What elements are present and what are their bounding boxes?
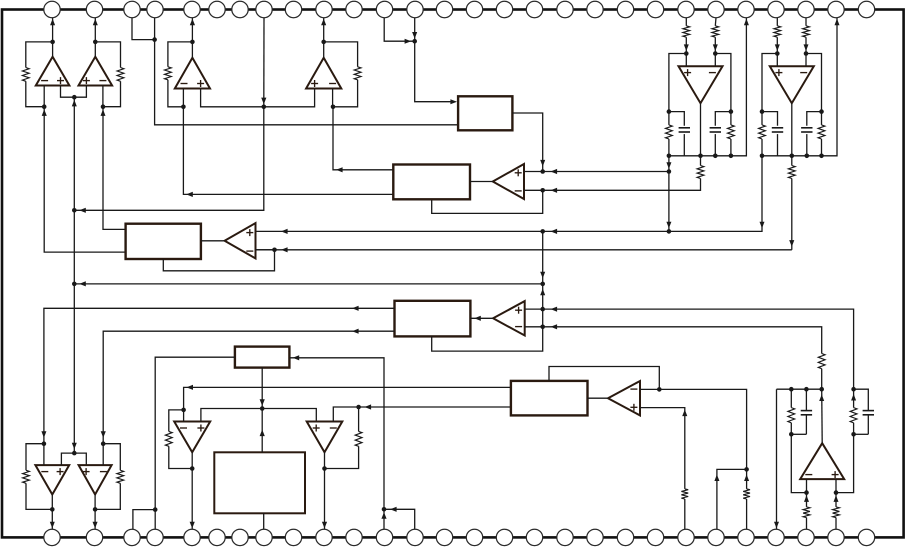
node RC1 bottom — [789, 432, 794, 437]
resistor R15 — [788, 408, 795, 423]
wire U6 + input — [776, 54, 778, 67]
op-amp U4 — [306, 58, 341, 89]
block B4 — [395, 301, 471, 337]
top pin row (pins 1-28) — [44, 1, 875, 17]
wire C5b to rail — [714, 134, 716, 156]
resistor R9 — [165, 431, 172, 446]
arrow into pin 5 — [190, 19, 195, 26]
wire U1 inverting input — [43, 86, 45, 107]
arrow line E into buffer A2 — [281, 247, 288, 252]
arrow into bottom pin 38 — [322, 522, 327, 529]
wire A3 - line to x822 — [543, 327, 822, 354]
arrow on B2 lower input — [186, 192, 193, 197]
node VC at line y210 — [72, 208, 77, 213]
node U5 left net top — [667, 109, 672, 114]
wire line E — [256, 249, 792, 251]
arrow U11 output up — [819, 394, 824, 401]
wire U2 inv node down to block B3 — [103, 107, 126, 230]
wire A4 - line to pins 23/24 — [659, 389, 746, 469]
wire pin 12 down — [384, 18, 415, 42]
op-amp U1 — [36, 57, 70, 86]
wire R17 to bottom pin 27 — [835, 518, 837, 530]
resistor R6b — [803, 26, 810, 37]
wire to bottom pin 4 — [154, 510, 156, 530]
wire A4 - input — [640, 388, 659, 390]
wire U5 + input — [685, 54, 687, 67]
wire B4 upper output to U7 — [44, 308, 395, 443]
wire B6 bottom to pin 36 — [263, 513, 265, 529]
arrow into pin 10 — [321, 19, 326, 26]
capacitor C5a — [679, 128, 690, 132]
wire U1 output to R1 — [26, 42, 53, 68]
wire U5 bottom rail — [669, 18, 747, 156]
wire U6 + node to left network — [762, 54, 777, 112]
wire U11 + input — [835, 479, 837, 493]
wire pin 25 to R6a — [776, 18, 778, 26]
wire R16 to bottom pin 26 — [806, 518, 808, 530]
op-amp U5 — [679, 66, 723, 103]
wire node to bottom pin 41 — [384, 509, 415, 529]
wire U8 - input — [102, 444, 104, 465]
wire to bottom pin 3 — [133, 510, 155, 530]
wire R5d to rail — [730, 139, 732, 156]
wire R5b down — [714, 37, 716, 53]
arrow into B5 right side — [293, 355, 300, 360]
arrow into U1 inverting node — [42, 109, 47, 116]
capacitor C8 — [863, 411, 874, 415]
resistor R17 — [833, 507, 840, 518]
arrow into U8 - node — [101, 431, 106, 438]
wire R6c leads — [761, 112, 763, 125]
resistor R5d — [728, 125, 735, 139]
wire R6d to rail — [821, 139, 823, 156]
node U5 right net top — [729, 109, 734, 114]
wire R9 to U9 output — [169, 446, 192, 468]
arrow on B4 lower output — [352, 329, 359, 334]
node line A at x669 — [667, 169, 672, 174]
wire U11 top rail — [777, 388, 822, 390]
wire U1 noninv input — [61, 86, 75, 98]
wire C7 bottom riser — [805, 415, 807, 435]
wire U2 output to R2 — [95, 42, 120, 68]
resistor R1 — [22, 68, 29, 82]
resistor R5e — [697, 166, 704, 179]
wire A3 - feedback to B4 — [432, 327, 543, 351]
wire A4 + line — [640, 408, 685, 489]
arrow on line B — [551, 188, 558, 193]
wire A3 output to B4 — [470, 317, 493, 319]
node bottom pins 3/4 junction — [153, 507, 158, 512]
arrow center col up — [540, 289, 545, 296]
wire R5a down — [685, 37, 687, 53]
arrow into pin13 net — [405, 39, 412, 44]
wire U6 bottom rail — [762, 18, 837, 156]
block B2 — [393, 165, 470, 200]
arrow into U11 - node — [804, 495, 809, 502]
node U6 rail output — [790, 154, 795, 159]
arrow from pin 40 up — [381, 512, 386, 519]
node U11 + input — [834, 490, 839, 495]
arrow into U2 inverting node — [101, 109, 106, 116]
arrow line C mid — [551, 229, 558, 234]
resistor R18 — [850, 408, 857, 423]
wire U2 inverting input — [102, 86, 104, 107]
wire pin 22 to R5a — [685, 18, 687, 26]
op-amp buffer A2 — [225, 223, 256, 258]
wire U4 inverting input — [332, 89, 334, 107]
arrow VC into bottom rail — [72, 443, 77, 450]
wire U3 inv node to block B2 lower input — [183, 107, 393, 195]
wire A1 + input — [524, 171, 543, 173]
wire U2 noninv input — [74, 86, 86, 98]
wire pin 8 down to U3/U4 junction — [263, 18, 265, 107]
wire R8 to U8 output — [95, 483, 120, 509]
arrow into pin 27 — [835, 19, 840, 26]
node pin13 net — [412, 39, 417, 44]
wire U7 - to R7 — [26, 444, 44, 471]
wire pin 3 down — [132, 18, 155, 40]
wire C6a to rail — [777, 134, 779, 156]
node U5 - top — [713, 51, 718, 56]
wire R10 top lead — [358, 407, 360, 431]
wire RC2 top rail — [854, 389, 869, 410]
wire R2 to U2 inverting node — [103, 81, 121, 106]
wire U3 noninv input — [201, 89, 264, 107]
wire rail to pin 25 bottom — [776, 389, 778, 529]
wire B5 right to pins 40/41 — [289, 358, 384, 510]
wire node to bottom pin 40 — [383, 509, 385, 529]
wire R7 to U7 output — [26, 483, 52, 509]
wire A1 - feedback to B2 — [432, 190, 543, 213]
wire U7 output to pin 29 — [51, 495, 53, 530]
arrow into pins40 node — [390, 507, 397, 512]
op-amp U2 — [79, 57, 113, 86]
arrow A4 + leg up — [682, 410, 687, 417]
node U2 output — [93, 40, 98, 45]
wire R15 top lead — [790, 389, 792, 407]
wire B5 bottom to rail — [261, 368, 263, 409]
arrow into line A node — [666, 162, 671, 169]
wire cap C5a riser — [669, 112, 684, 126]
resistor R13 — [681, 489, 688, 499]
wire A3 - input — [525, 326, 543, 328]
block B6 — [214, 452, 305, 513]
node U5 rail cap — [713, 154, 718, 159]
node U5 + top — [684, 51, 689, 56]
wire RC1 bottom rail — [791, 433, 806, 435]
node U7 - node — [42, 441, 47, 446]
capacitor C6b — [801, 128, 812, 132]
block B7 — [511, 381, 588, 416]
node U6 rail cap — [805, 154, 810, 159]
resistor R6a — [774, 26, 781, 37]
node line E fb — [272, 248, 277, 253]
wire R6d leads — [821, 112, 823, 125]
wire U6 rail down to line C — [669, 156, 762, 232]
arrow into U6 + node — [775, 44, 780, 51]
node pins3-4 junction — [152, 37, 157, 42]
node U8 output — [93, 507, 98, 512]
arrow into bottom pin 25 — [774, 522, 779, 529]
arrow U6 leg down — [760, 222, 765, 229]
op-amp U9 — [174, 422, 210, 453]
arrow line F into VC — [79, 281, 86, 286]
wire U3 inverting input — [182, 89, 184, 107]
wire A4 - feedback over B7 — [549, 367, 659, 390]
resistor R12 — [818, 354, 825, 369]
wire U5 + node to left network — [669, 54, 686, 112]
node bottom pins 40/41 junction — [382, 507, 387, 512]
arrow on B7 upper line — [186, 385, 193, 390]
wire line A to U5 network — [543, 171, 669, 173]
arrow into line C node x669 — [666, 222, 671, 229]
wire U3/U4 junction down and left to VC — [74, 107, 263, 211]
wire R5c leads — [668, 112, 670, 125]
arrow on U6 output leg — [789, 240, 794, 247]
wire pin 26 to R6b — [805, 18, 807, 26]
resistor R8 — [117, 470, 124, 483]
wire pin 4 to bus — [155, 18, 459, 125]
op-amp U8 — [79, 465, 112, 494]
arrow on B4 upper output — [352, 306, 359, 311]
node A4 - input — [657, 387, 662, 392]
op-amp buffer A4 — [608, 381, 640, 415]
resistor R5b — [712, 26, 719, 37]
resistor R14 — [743, 489, 750, 499]
arrow into bottom pin 33 — [190, 522, 195, 529]
wire R18 top lead — [853, 389, 855, 407]
wire R18 bottom lead — [853, 423, 855, 435]
wire R1 to U1 inverting node — [26, 81, 44, 106]
node U6 rail left — [760, 154, 765, 159]
wire center column upper — [542, 231, 544, 309]
wire R6b down — [805, 37, 807, 53]
wire cap C6b riser — [807, 112, 822, 126]
wire U4 output to pin 10 — [323, 18, 325, 58]
wire R3 to U3 inverting node — [168, 80, 184, 107]
node U5 rail res — [729, 154, 734, 159]
node U3 output — [190, 40, 195, 45]
wire cap C6a riser — [762, 112, 778, 126]
wire C7 top riser — [805, 389, 807, 410]
node U1/U2 noninverting junction — [72, 95, 77, 100]
wire U9 - to R9 — [169, 410, 184, 432]
wire RC2 bottom rail — [854, 433, 869, 435]
resistor R16 — [803, 507, 810, 518]
wire R4 to U4 inverting node — [333, 80, 358, 107]
wire U5 - node to right network — [715, 54, 731, 112]
wire U6 - input — [805, 54, 807, 67]
wire A2 output to B3 — [201, 240, 225, 242]
node A1 - input — [540, 188, 545, 193]
wire U6 output — [791, 103, 793, 156]
node U6 right net top — [819, 109, 824, 114]
resistor R6c — [759, 125, 766, 139]
arrow pin13 into net — [412, 32, 417, 39]
node U6 left net top — [760, 109, 765, 114]
wire line F — [74, 283, 542, 285]
arrow on A3 - line — [551, 324, 558, 329]
wire U3 output to R3 — [168, 42, 193, 67]
node U8 - node — [101, 441, 106, 446]
node U5 rail output — [698, 154, 703, 159]
arrow up into RC2 top node — [851, 394, 856, 401]
resistor R5c — [666, 125, 673, 139]
wire line C — [256, 230, 669, 232]
arrow into U3/U4 junction — [261, 98, 266, 105]
wire A2 - input — [256, 249, 275, 251]
wire R6a down — [776, 37, 778, 53]
wire U5 - input — [714, 54, 716, 67]
op-amp buffer A3 — [493, 301, 525, 335]
wire R5d leads — [730, 112, 732, 125]
op-amp U7 — [35, 465, 69, 494]
wire A1 - input — [524, 189, 543, 191]
wire C8 bottom riser — [867, 415, 869, 435]
resistor R2 — [117, 68, 124, 82]
wire U11 output — [821, 389, 824, 443]
resistor R10 — [355, 431, 362, 446]
wire U3 output to pin 5 — [191, 18, 193, 58]
wire line B to R5 leg — [543, 179, 701, 191]
wire U5 rail down to line A — [668, 156, 670, 232]
arrow on B2 upper input — [336, 167, 343, 172]
arrow into U5 - node — [713, 44, 718, 51]
node U6 + top — [775, 51, 780, 56]
arrow on line A — [551, 169, 558, 174]
wire R13 to bottom pin 22 — [684, 499, 686, 529]
wire A2 - feedback to B3 — [163, 250, 274, 271]
arrow into pin 2 — [93, 19, 98, 26]
arrow into U7 - node — [41, 431, 46, 438]
block B5 — [235, 347, 290, 368]
wire U9 - input — [183, 410, 185, 422]
wire pin 13 down into B1 — [415, 18, 456, 102]
arrow into pin 1 — [50, 19, 55, 26]
wire U2 output to pin 2 — [94, 18, 96, 57]
op-amp U10 — [307, 422, 343, 453]
capacitor C7 — [801, 411, 812, 415]
node line F x543 — [540, 282, 545, 287]
bottom pin row (pins 29-56) — [44, 529, 875, 545]
wire A3 + line to x854 — [543, 309, 854, 389]
capacitor C6a — [772, 128, 783, 132]
node RC2 bottom — [851, 432, 856, 437]
wire A4 output to B7 — [588, 397, 609, 399]
wire U11 + node to R17 — [835, 493, 837, 507]
wire R10 to U10 output — [325, 446, 359, 468]
arrow pin23 leg up — [714, 474, 719, 481]
wire net VC vertical — [73, 97, 75, 452]
node U10 output — [322, 466, 327, 471]
node U4 inverting input — [331, 105, 336, 110]
wire R15 bottom lead — [790, 423, 792, 435]
wire U5 output — [700, 103, 702, 156]
wire A1 output to B2 — [470, 181, 493, 183]
wire RC2 to U11 + — [836, 434, 854, 492]
resistor R6d — [818, 125, 825, 139]
node U4 output — [321, 40, 326, 45]
wire R5c to rail — [668, 139, 670, 156]
wire U4 noninv input — [264, 89, 315, 107]
op-amp U3 — [175, 58, 210, 89]
wire U10 output to pin 38 — [324, 452, 326, 529]
arrow pin24 leg up — [744, 474, 749, 481]
wire C6b to rail — [806, 134, 808, 156]
node mid rail — [260, 406, 265, 411]
arrow into bottom pin 30 — [93, 522, 98, 529]
resistor R4 — [354, 67, 361, 80]
resistor R5a — [683, 26, 690, 37]
wire R12 down to rail — [821, 369, 823, 390]
wire U7 - input — [43, 444, 45, 465]
wire B5 left to pins 3/4 net — [155, 357, 235, 509]
arrow into B1 input — [450, 99, 457, 104]
wire U6 - node to right network — [806, 54, 822, 112]
wire B1 output — [512, 113, 542, 172]
node A3 + input — [540, 307, 545, 312]
wire center column lower — [542, 309, 544, 327]
arrow center col down — [540, 272, 545, 279]
arrow into VC node — [79, 208, 86, 213]
wire B7 upper to U9 - — [184, 387, 511, 410]
arrow B5 into rail — [260, 399, 265, 406]
node A3 - input — [540, 325, 545, 330]
block B1 — [458, 96, 512, 130]
wire junction to bottom pin 23 — [717, 469, 747, 529]
arrow line C into buffer A2 — [281, 229, 288, 234]
node U9 - input — [181, 408, 186, 413]
node U7/U8 + junction — [72, 451, 77, 456]
wire U4 inv node to block B2 upper input — [333, 107, 393, 170]
arrow B6 into rail — [260, 430, 265, 437]
wire U8 - to R8 — [103, 444, 120, 471]
capacitor C5b — [710, 128, 721, 132]
wire R14 to bottom pin 24 — [746, 499, 748, 529]
wire U8 output to pin 30 — [94, 495, 96, 530]
arrow into bottom pin 29 — [50, 522, 55, 529]
node RC2 top — [851, 387, 856, 392]
node U2 inverting input — [101, 104, 106, 109]
wire B7 lower to U10 - — [359, 406, 511, 408]
wire R6e top lead — [791, 156, 793, 166]
wire U4 output to R4 — [324, 42, 358, 67]
node U1 inverting input — [42, 104, 47, 109]
arrow on A3 + line — [551, 307, 558, 312]
wire U1 inv node down to block B3 — [44, 107, 125, 252]
node U7 output — [50, 507, 55, 512]
wire B6 top to rail — [261, 409, 263, 453]
node U1 output — [50, 40, 55, 45]
node A1 + input — [540, 169, 545, 174]
node U3/U4 noninverting junction — [262, 105, 267, 110]
wire B4 lower output to U8 — [103, 331, 394, 444]
wire R5e top lead — [700, 156, 702, 166]
arrow into noninv junction — [72, 100, 77, 107]
node line C x669 — [667, 229, 672, 234]
wire U11 - node to R16 — [806, 493, 808, 507]
wire U11 - input — [806, 479, 808, 493]
wire R6e down to line E — [791, 179, 793, 250]
op-amp U6 — [770, 66, 814, 103]
op-amp buffer A1 — [493, 164, 524, 199]
wire U7 + rail — [61, 453, 86, 465]
node rail C7 — [804, 387, 809, 392]
arrow on B7 lower line — [365, 404, 372, 409]
wire U1 output to pin 1 — [52, 18, 54, 57]
node U5 rail left — [667, 154, 672, 159]
arrow into buffer A1 + node — [540, 160, 545, 167]
